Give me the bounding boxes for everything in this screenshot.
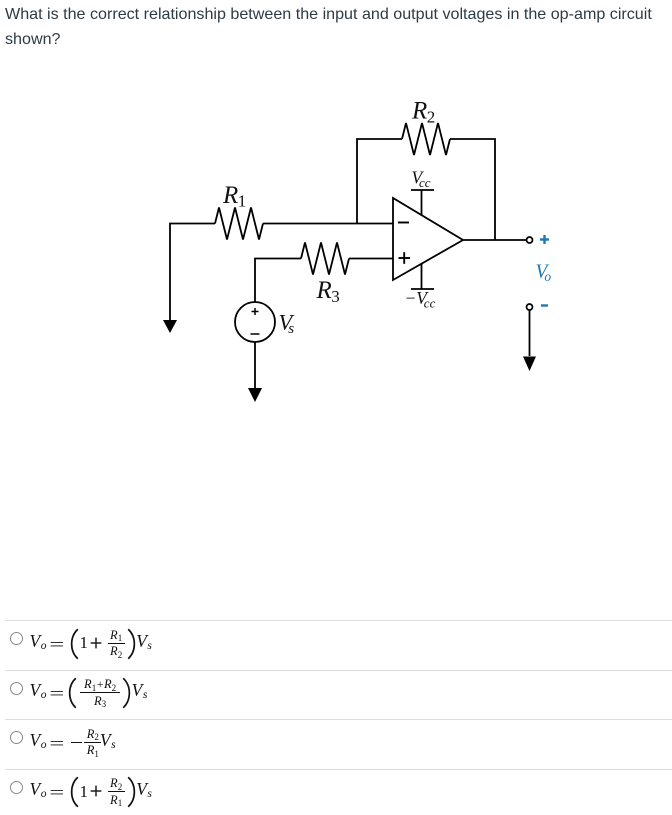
svg-text:Vcc: Vcc <box>412 168 431 190</box>
svg-text:−Vcc: −Vcc <box>405 288 436 310</box>
svg-text:R3: R3 <box>316 277 340 306</box>
svg-text:Vs: Vs <box>279 310 295 338</box>
svg-text:R2: R2 <box>411 98 435 127</box>
svg-text:R1: R1 <box>222 182 246 211</box>
svg-text:Vo: Vo <box>536 262 552 284</box>
